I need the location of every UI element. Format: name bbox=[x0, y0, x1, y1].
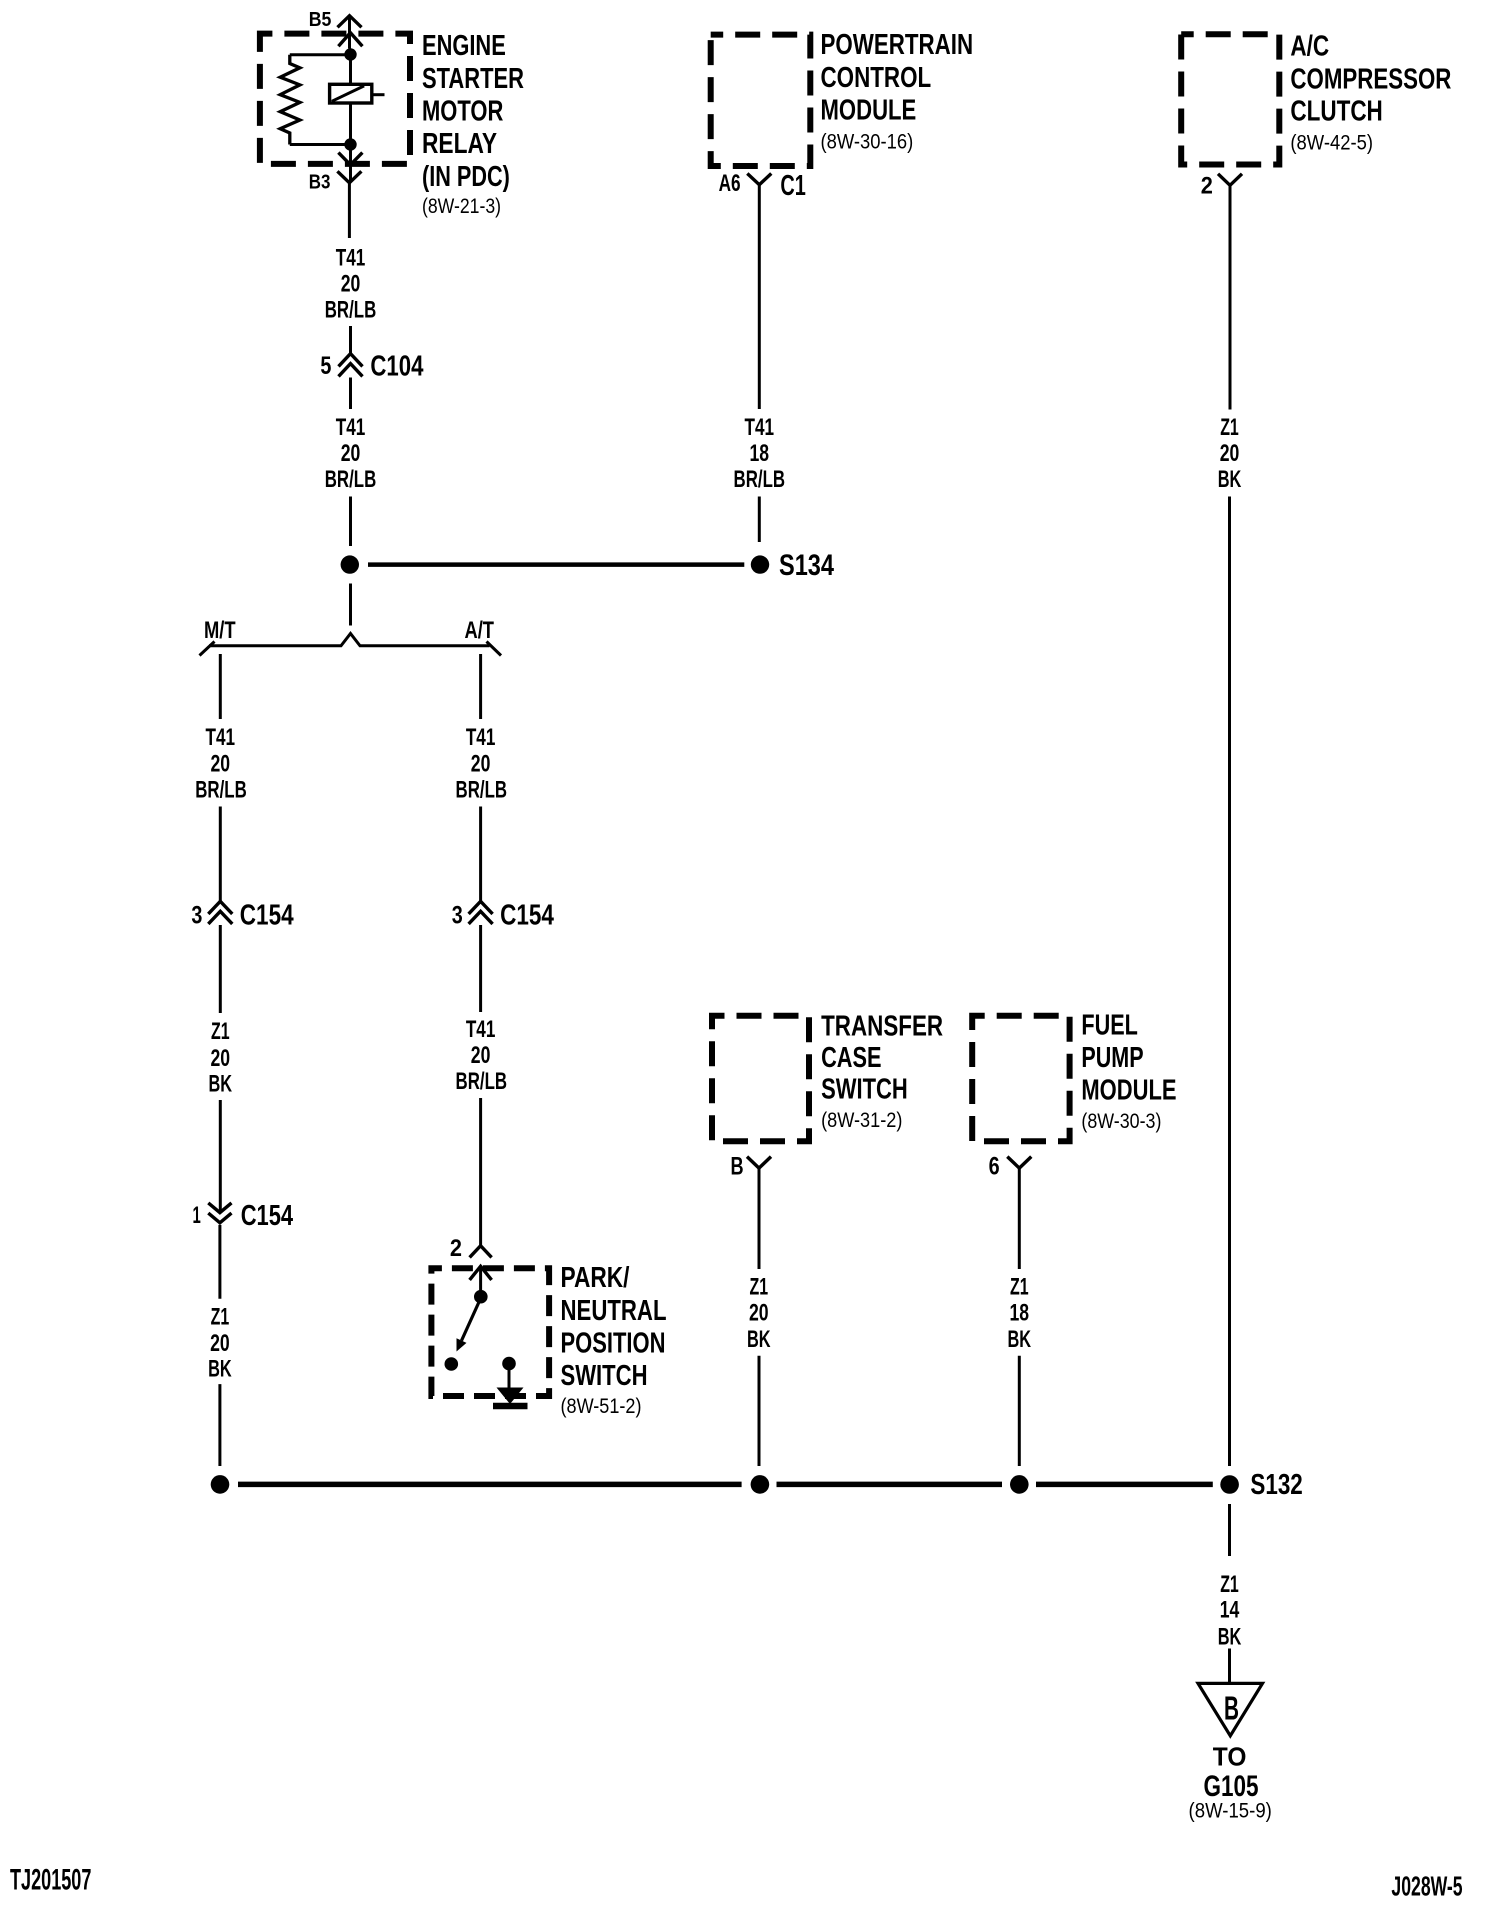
splice S132 trunk line segment 2 bbox=[777, 1482, 1003, 1488]
svg-text:BR/LB: BR/LB bbox=[325, 466, 377, 493]
svg-text:A/T: A/T bbox=[465, 617, 495, 644]
PCM box (dashed) bbox=[711, 35, 811, 166]
svg-text:BK: BK bbox=[208, 1356, 232, 1383]
svg-text:B5: B5 bbox=[309, 9, 332, 31]
svg-text:C154: C154 bbox=[241, 1200, 293, 1232]
splice S132 trunk line segment 3 bbox=[1036, 1482, 1213, 1488]
svg-text:2: 2 bbox=[450, 1235, 462, 1262]
svg-text:Z1: Z1 bbox=[1010, 1274, 1029, 1301]
wire down to PNP switch bbox=[479, 1098, 482, 1246]
svg-text:C154: C154 bbox=[500, 900, 554, 932]
svg-text:B3: B3 bbox=[309, 172, 331, 194]
junction dot M/T branch bbox=[211, 1475, 230, 1494]
svg-text:S132: S132 bbox=[1250, 1469, 1302, 1501]
connector Y at pin B bbox=[747, 1157, 771, 1169]
ground symbol triangle bbox=[497, 1388, 524, 1405]
split bar with center caret bbox=[209, 634, 490, 646]
svg-text:BR/LB: BR/LB bbox=[195, 776, 247, 803]
svg-text:BR/LB: BR/LB bbox=[456, 776, 508, 803]
A/C box (dashed) bbox=[1181, 34, 1279, 164]
switch common contact dot bbox=[474, 1290, 488, 1304]
pin 2 chevron bbox=[470, 1246, 492, 1258]
svg-text:C1: C1 bbox=[780, 170, 806, 202]
svg-text:FUEL: FUEL bbox=[1081, 1009, 1138, 1041]
wire dot2 down through box edge bbox=[349, 151, 352, 183]
splice S134 trunk line bbox=[368, 562, 744, 567]
relay internal bottom junction dot bbox=[344, 138, 356, 150]
svg-text:TO: TO bbox=[1213, 1741, 1247, 1771]
svg-text:20: 20 bbox=[749, 1300, 769, 1327]
svg-text:SWITCH: SWITCH bbox=[821, 1074, 908, 1106]
svg-text:T41: T41 bbox=[745, 414, 775, 441]
svg-text:(8W-31-2): (8W-31-2) bbox=[821, 1109, 902, 1132]
wire down to splice S134 bbox=[758, 497, 761, 543]
svg-text:3: 3 bbox=[452, 901, 463, 929]
svg-text:BR/LB: BR/LB bbox=[734, 466, 786, 493]
svg-text:T41: T41 bbox=[336, 414, 366, 441]
svg-text:(8W-15-9): (8W-15-9) bbox=[1189, 1800, 1272, 1823]
connector Y at A/C pin 2 bbox=[1218, 174, 1242, 186]
svg-text:B: B bbox=[731, 1153, 744, 1181]
connector C154 down double chevron (pin 1) bbox=[208, 1203, 231, 1213]
svg-text:Z1: Z1 bbox=[211, 1304, 230, 1331]
splice S132 trunk line segment 1 bbox=[238, 1482, 742, 1488]
wire to C104 bbox=[349, 326, 352, 354]
svg-text:CLUTCH: CLUTCH bbox=[1290, 96, 1382, 128]
svg-text:BK: BK bbox=[209, 1070, 233, 1097]
off-page triangle connector B bbox=[1198, 1683, 1263, 1735]
wire down bbox=[1018, 1168, 1021, 1269]
junction dot right S134 bbox=[751, 555, 769, 573]
wire below C154 bbox=[219, 925, 222, 1013]
wire B3 down bbox=[348, 183, 351, 238]
svg-text:T41: T41 bbox=[336, 245, 366, 272]
wire top link to resistor bbox=[290, 53, 351, 56]
wire into switch bbox=[479, 1266, 482, 1290]
left end tick bbox=[200, 642, 215, 656]
junction dot transfer case bbox=[751, 1475, 770, 1494]
wire below C104 bbox=[349, 378, 352, 410]
svg-text:6: 6 bbox=[989, 1153, 1000, 1181]
svg-text:BR/LB: BR/LB bbox=[325, 297, 377, 324]
svg-text:20: 20 bbox=[341, 440, 361, 467]
wire below C154 bbox=[479, 925, 482, 1012]
relay coil diagonal bbox=[332, 86, 364, 101]
junction dot fuel pump bbox=[1010, 1475, 1029, 1494]
svg-text:TJ201507: TJ201507 bbox=[10, 1864, 91, 1897]
relay box (dashed) bbox=[260, 34, 410, 164]
wire to C154 pin1 bbox=[219, 1100, 222, 1213]
switch contact dot lower-right bbox=[502, 1357, 516, 1371]
svg-text:CASE: CASE bbox=[821, 1042, 881, 1074]
svg-text:T41: T41 bbox=[466, 1016, 496, 1043]
transfer case box (dashed) bbox=[712, 1016, 809, 1141]
svg-text:BK: BK bbox=[1008, 1326, 1032, 1353]
wire bottom link from resistor bbox=[290, 143, 351, 146]
fuel pump box (dashed) bbox=[972, 1016, 1069, 1141]
svg-text:(8W-30-16): (8W-30-16) bbox=[821, 131, 914, 154]
wire down bbox=[758, 1168, 761, 1269]
svg-text:Z1: Z1 bbox=[211, 1018, 230, 1045]
svg-text:A/C: A/C bbox=[1290, 31, 1329, 63]
svg-text:M/T: M/T bbox=[204, 617, 236, 644]
svg-text:SWITCH: SWITCH bbox=[561, 1360, 648, 1392]
connector C104 double chevron bbox=[339, 354, 363, 367]
svg-text:20: 20 bbox=[210, 1330, 230, 1357]
svg-text:Z1: Z1 bbox=[1220, 1571, 1239, 1598]
svg-text:(8W-42-5): (8W-42-5) bbox=[1290, 131, 1373, 154]
svg-text:Z1: Z1 bbox=[750, 1274, 769, 1301]
svg-text:TRANSFER: TRANSFER bbox=[821, 1011, 943, 1043]
wire coil to dot2 bbox=[349, 103, 352, 139]
svg-text:T41: T41 bbox=[206, 724, 236, 751]
svg-text:MOTOR: MOTOR bbox=[422, 96, 503, 128]
svg-text:3: 3 bbox=[191, 901, 202, 929]
svg-text:ENGINE: ENGINE bbox=[422, 30, 506, 62]
svg-text:20: 20 bbox=[471, 751, 491, 778]
svg-text:J028W-5: J028W-5 bbox=[1391, 1871, 1462, 1902]
svg-text:BK: BK bbox=[1218, 466, 1242, 493]
connector B3 Y symbol bbox=[337, 171, 361, 183]
wire PCM down bbox=[758, 185, 761, 409]
svg-text:(8W-51-2): (8W-51-2) bbox=[561, 1395, 642, 1418]
svg-text:18: 18 bbox=[750, 440, 770, 467]
svg-text:MODULE: MODULE bbox=[821, 95, 917, 127]
connector B5 chevron bbox=[338, 16, 362, 28]
svg-text:B: B bbox=[1224, 1690, 1239, 1727]
svg-text:18: 18 bbox=[1010, 1300, 1030, 1327]
svg-text:T41: T41 bbox=[466, 724, 496, 751]
svg-text:PUMP: PUMP bbox=[1081, 1042, 1143, 1074]
svg-text:20: 20 bbox=[341, 271, 361, 298]
svg-text:BK: BK bbox=[747, 1326, 771, 1353]
svg-text:C104: C104 bbox=[370, 351, 423, 383]
svg-text:POSITION: POSITION bbox=[561, 1328, 666, 1360]
svg-text:POWERTRAIN: POWERTRAIN bbox=[821, 29, 974, 61]
svg-text:1: 1 bbox=[193, 1202, 201, 1229]
svg-text:G105: G105 bbox=[1204, 1770, 1259, 1803]
wire M/T down bbox=[219, 654, 222, 719]
wire down to splice S132 bbox=[218, 1384, 221, 1466]
svg-text:20: 20 bbox=[1220, 440, 1240, 467]
svg-text:(8W-30-3): (8W-30-3) bbox=[1081, 1110, 1161, 1133]
svg-text:BK: BK bbox=[1218, 1623, 1242, 1650]
svg-text:COMPRESSOR: COMPRESSOR bbox=[1290, 63, 1451, 95]
switch arm bbox=[462, 1298, 481, 1341]
relay coil right stub bbox=[372, 93, 385, 96]
junction dot S132 bbox=[1220, 1475, 1239, 1494]
wire to triangle bbox=[1228, 1649, 1231, 1684]
wire dot1 to coil bbox=[349, 61, 352, 85]
connector Y at PCM pin A6 bbox=[747, 174, 771, 185]
wire A/C down bbox=[1229, 185, 1232, 409]
wire to C154 bbox=[479, 807, 482, 902]
svg-text:5: 5 bbox=[320, 352, 331, 380]
svg-text:Z1: Z1 bbox=[1220, 414, 1239, 441]
connector C154 double chevron (pin 3) bbox=[469, 901, 493, 914]
switch arm arrowhead bbox=[457, 1338, 467, 1351]
svg-text:STARTER: STARTER bbox=[422, 63, 524, 95]
ground symbol bar bbox=[493, 1403, 528, 1409]
resistor (relay coil suppression) zigzag bbox=[280, 55, 300, 145]
svg-text:MODULE: MODULE bbox=[1081, 1075, 1176, 1107]
svg-text:(IN PDC): (IN PDC) bbox=[422, 161, 510, 193]
connector Y at pin 6 bbox=[1007, 1157, 1031, 1169]
svg-text:PARK/: PARK/ bbox=[561, 1262, 630, 1294]
svg-text:S134: S134 bbox=[779, 549, 834, 582]
wire A/T down bbox=[479, 654, 482, 719]
svg-text:NEUTRAL: NEUTRAL bbox=[561, 1295, 667, 1327]
svg-text:RELAY: RELAY bbox=[422, 128, 497, 160]
wire below C154 pin1 bbox=[218, 1225, 221, 1299]
wire B5 into relay box bbox=[348, 16, 351, 49]
svg-text:C154: C154 bbox=[240, 900, 294, 932]
svg-text:14: 14 bbox=[1220, 1597, 1240, 1624]
wire down to splice S132 bbox=[758, 1356, 761, 1466]
svg-text:20: 20 bbox=[211, 751, 231, 778]
svg-text:(8W-21-3): (8W-21-3) bbox=[422, 195, 501, 218]
junction dot left bbox=[341, 555, 359, 573]
switch contact dot lower-left bbox=[445, 1357, 459, 1371]
wire down to splice S132 bbox=[1018, 1356, 1021, 1466]
svg-text:20: 20 bbox=[211, 1045, 231, 1072]
chevron crossing relay box bottom edge bbox=[338, 153, 362, 165]
wire below S132 bbox=[1228, 1504, 1231, 1556]
long wire down to splice S132 bbox=[1228, 497, 1231, 1467]
chevron crossing PNP box top edge bbox=[470, 1266, 492, 1280]
relay internal top junction dot bbox=[344, 48, 356, 60]
svg-text:CONTROL: CONTROL bbox=[821, 62, 932, 94]
svg-text:2: 2 bbox=[1201, 172, 1213, 199]
relay coil box bbox=[330, 84, 372, 103]
wire contact to ground bbox=[508, 1370, 511, 1391]
svg-text:A6: A6 bbox=[719, 170, 741, 197]
connector C154 double chevron (pin 3) bbox=[208, 901, 232, 914]
chevron crossing relay box top edge bbox=[338, 33, 362, 47]
right end tick bbox=[487, 642, 502, 656]
svg-text:20: 20 bbox=[471, 1042, 491, 1069]
wire to C154 bbox=[219, 807, 222, 902]
svg-text:BR/LB: BR/LB bbox=[456, 1068, 508, 1095]
wire below left dot bbox=[349, 584, 352, 626]
wire down to splice S134 bbox=[349, 497, 352, 547]
PNP switch box (dashed) bbox=[431, 1268, 549, 1396]
